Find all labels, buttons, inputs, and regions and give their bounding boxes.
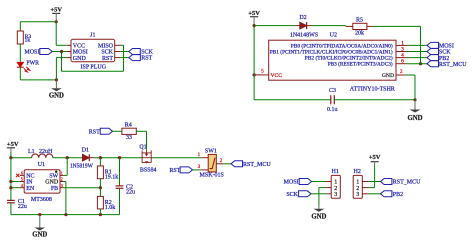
- svg-text:SCK: SCK: [439, 50, 451, 56]
- svg-text:SCK: SCK: [141, 50, 153, 56]
- svg-text:RST: RST: [89, 130, 100, 136]
- svg-text:EN: EN: [26, 186, 35, 192]
- svg-text:VCC: VCC: [73, 44, 85, 50]
- svg-text:1: 1: [356, 180, 359, 186]
- svg-text:GND: GND: [73, 56, 87, 62]
- svg-text:MOSI: MOSI: [284, 180, 299, 186]
- svg-text:3: 3: [356, 192, 359, 198]
- svg-text:GND: GND: [382, 73, 394, 79]
- svg-text:GND: GND: [311, 214, 326, 221]
- svg-text:RST_MCU: RST_MCU: [439, 62, 467, 68]
- svg-text:MOSI: MOSI: [24, 50, 39, 56]
- svg-text:SW1: SW1: [205, 149, 217, 155]
- svg-text:SCK: SCK: [286, 192, 298, 198]
- svg-text:IN: IN: [26, 180, 33, 186]
- svg-text:+5V: +5V: [369, 154, 381, 161]
- svg-text:6: 6: [401, 59, 404, 65]
- svg-text:1: 1: [401, 40, 404, 46]
- svg-text:19.1k: 19.1k: [105, 175, 119, 181]
- svg-text:1.0k: 1.0k: [105, 205, 116, 211]
- svg-text:3: 3: [401, 46, 404, 52]
- svg-text:PB0 (PCINT0/TPIDATA/OC0A/ADC0/: PB0 (PCINT0/TPIDATA/OC0A/ADC0/AIN0): [291, 42, 393, 49]
- svg-text:3: 3: [61, 183, 63, 188]
- svg-text:U1: U1: [38, 162, 45, 168]
- svg-text:4: 4: [21, 183, 23, 188]
- svg-text:MOSI: MOSI: [73, 50, 88, 56]
- svg-text:PB2 (TI0/CLKO/PCINT2/INT0/ADC2: PB2 (TI0/CLKO/PCINT2/INT0/ADC2): [305, 55, 393, 62]
- svg-text:PB3 (RESET/PCINT3/ADC3): PB3 (RESET/PCINT3/ADC3): [328, 61, 393, 68]
- svg-text:2: 2: [61, 177, 63, 182]
- svg-text:NC: NC: [26, 174, 34, 180]
- svg-text:ATTINY10-TSHR: ATTINY10-TSHR: [350, 87, 395, 93]
- svg-text:L1: L1: [28, 149, 35, 155]
- svg-text:J1: J1: [90, 33, 95, 39]
- svg-text:SW: SW: [49, 174, 58, 180]
- svg-text:33: 33: [126, 135, 132, 141]
- svg-text:D1: D1: [82, 148, 89, 154]
- svg-text:GND: GND: [49, 92, 64, 99]
- svg-text:R4: R4: [125, 123, 132, 129]
- svg-text:5: 5: [21, 177, 23, 182]
- svg-text:H2: H2: [354, 169, 361, 175]
- svg-text:1N5819W: 1N5819W: [70, 164, 93, 170]
- svg-text:22uH: 22uH: [39, 149, 53, 155]
- svg-text:3: 3: [334, 192, 337, 198]
- svg-text:2: 2: [356, 186, 359, 192]
- svg-text:22u: 22u: [18, 204, 27, 210]
- svg-text:+5V: +5V: [248, 10, 260, 17]
- svg-text:SCK: SCK: [101, 50, 113, 56]
- svg-text:1: 1: [334, 180, 337, 186]
- svg-text:MT3608: MT3608: [31, 197, 52, 203]
- svg-text:PB1 (PCINT1/TPICLK/CLKI/ICP0/O: PB1 (PCINT1/TPICLK/CLKI/ICP0/OC0B/ADC1/A…: [270, 48, 393, 55]
- svg-text:Q1: Q1: [139, 145, 146, 151]
- svg-text:PB2: PB2: [439, 56, 449, 62]
- svg-text:6: 6: [21, 171, 23, 176]
- svg-text:RST_MCU: RST_MCU: [393, 180, 421, 186]
- svg-text:H1: H1: [332, 169, 339, 175]
- svg-text:RST: RST: [169, 168, 180, 174]
- svg-text:+5V: +5V: [7, 141, 19, 148]
- svg-text:U2: U2: [330, 33, 337, 39]
- svg-text:GND: GND: [45, 180, 59, 186]
- svg-text:1: 1: [61, 171, 63, 176]
- svg-text:4: 4: [401, 53, 404, 59]
- svg-text:R5: R5: [356, 17, 363, 23]
- svg-text:GND: GND: [407, 115, 422, 122]
- svg-text:+5V: +5V: [50, 7, 62, 14]
- svg-text:PB2: PB2: [393, 192, 403, 198]
- svg-text:VCC: VCC: [271, 73, 283, 79]
- svg-text:1k: 1k: [25, 38, 31, 44]
- svg-text:1N4148WS: 1N4148WS: [290, 33, 318, 39]
- svg-text:0.1u: 0.1u: [327, 107, 338, 113]
- svg-text:FB: FB: [51, 186, 58, 192]
- svg-text:GND: GND: [32, 231, 47, 238]
- svg-text:22u: 22u: [126, 189, 135, 195]
- svg-text:BSS84: BSS84: [140, 168, 157, 174]
- svg-text:RST: RST: [141, 56, 152, 62]
- svg-text:RST_MCU: RST_MCU: [243, 162, 271, 168]
- svg-text:20k: 20k: [355, 30, 364, 36]
- svg-text:PWR: PWR: [26, 61, 39, 67]
- svg-text:MOSI: MOSI: [439, 44, 454, 50]
- svg-text:ISP PLUG: ISP PLUG: [80, 65, 106, 71]
- svg-text:D2: D2: [299, 15, 306, 21]
- svg-text:RST: RST: [102, 56, 113, 62]
- svg-text:MISO: MISO: [98, 44, 114, 50]
- svg-text:C3: C3: [329, 88, 336, 94]
- svg-text:2: 2: [334, 186, 337, 192]
- svg-text:MSK-01S: MSK-01S: [200, 173, 224, 179]
